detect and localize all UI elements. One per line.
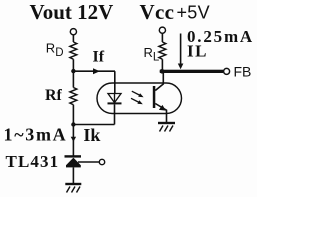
svg-text:Vout 12V: Vout 12V <box>30 0 114 24</box>
svg-text:TL431: TL431 <box>6 152 60 171</box>
wire FB thick bus <box>160 70 223 73</box>
wire LED anode internal <box>114 94 116 103</box>
phototransistor emitter arrowhead <box>159 105 166 111</box>
TL431 reference terminal <box>99 159 104 164</box>
optocoupler LED D1 triangle <box>108 94 121 103</box>
svg-text:IL: IL <box>187 41 208 60</box>
phototransistor Q1 base bar <box>153 86 156 108</box>
optocoupler U1 body <box>97 83 182 114</box>
svg-text:RD: RD <box>46 41 64 59</box>
TL431 U2 anode bar <box>66 165 81 167</box>
terminal FB <box>224 68 230 74</box>
svg-text:Ik: Ik <box>83 125 100 145</box>
phototransistor collector lead <box>155 72 163 91</box>
optocoupler LED D1 cathode bar <box>108 102 122 104</box>
IL current arrow <box>178 34 184 70</box>
wire If branch <box>73 70 115 72</box>
terminal Vout <box>70 29 76 35</box>
svg-text:If: If <box>93 49 105 66</box>
wire RD to node A <box>72 59 74 87</box>
light arrow 1 <box>132 91 144 97</box>
svg-text:FB: FB <box>234 64 252 80</box>
svg-text:RL: RL <box>144 45 160 63</box>
node C junction <box>160 69 165 74</box>
wire If corner down to LED anode <box>114 71 116 93</box>
svg-text:Vcc: Vcc <box>140 0 175 24</box>
wire Ik segment node B to TL431 <box>72 125 74 156</box>
resistor RD <box>70 42 77 59</box>
Ik current arrowhead <box>71 137 76 142</box>
terminal Vcc <box>159 27 165 33</box>
phototransistor emitter lead <box>155 104 166 123</box>
ground right <box>158 122 175 132</box>
svg-text:Rf: Rf <box>45 87 63 104</box>
svg-text:+5V: +5V <box>177 2 210 22</box>
wire Rf to node B <box>72 105 74 125</box>
wire RL to node C <box>161 59 163 71</box>
wire TL431 reference lead <box>78 161 99 163</box>
wire Vout terminal to RD <box>72 35 74 42</box>
svg-text:1~3mA: 1~3mA <box>4 125 68 145</box>
wire Vcc terminal to RL <box>161 33 163 42</box>
wire LED cathode return to node B <box>73 124 114 126</box>
TL431 U2 body triangle <box>66 158 81 166</box>
resistor Rf <box>70 88 77 105</box>
TL431 U2 cathode bar <box>65 155 82 157</box>
node A junction <box>71 69 75 73</box>
wire LED cathode down <box>114 104 116 124</box>
resistor RL <box>159 42 166 59</box>
If current arrowhead <box>93 68 100 74</box>
wire TL431 anode to ground <box>72 167 74 183</box>
node B junction <box>71 122 75 126</box>
light arrow 2 <box>131 98 143 104</box>
ground left <box>65 183 81 193</box>
